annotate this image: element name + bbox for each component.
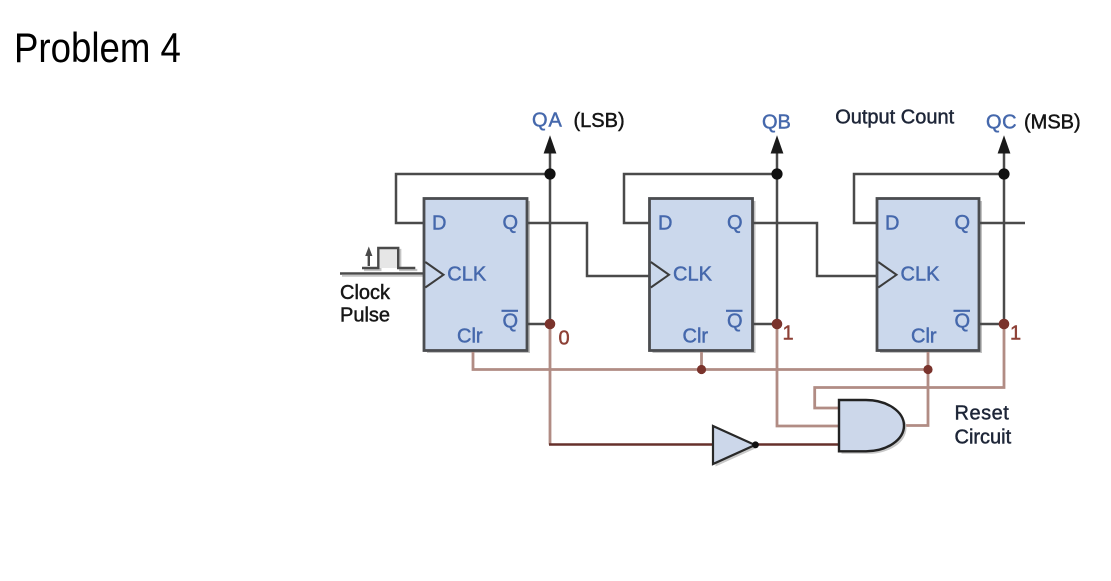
svg-text:QB: QB: [762, 112, 791, 134]
svg-text:D: D: [432, 213, 446, 235]
svg-text:(MSB): (MSB): [1024, 112, 1081, 134]
svg-text:Q: Q: [727, 212, 743, 234]
svg-text:Q: Q: [955, 311, 971, 333]
svg-text:(LSB): (LSB): [574, 110, 625, 132]
svg-text:0: 0: [559, 328, 570, 350]
svg-text:1: 1: [1010, 323, 1021, 345]
svg-text:CLK: CLK: [447, 264, 487, 286]
svg-text:QC: QC: [986, 112, 1017, 134]
svg-text:CLK: CLK: [901, 264, 941, 286]
svg-text:Reset: Reset: [955, 403, 1010, 425]
svg-text:1: 1: [783, 323, 794, 345]
svg-text:Q: Q: [955, 212, 971, 234]
svg-text:Clr: Clr: [911, 326, 937, 348]
svg-text:Clock: Clock: [340, 282, 391, 304]
svg-text:CLK: CLK: [673, 264, 713, 286]
svg-text:Output Count: Output Count: [835, 107, 954, 129]
svg-text:Circuit: Circuit: [955, 427, 1012, 449]
svg-text:Q: Q: [503, 311, 519, 333]
svg-text:Q: Q: [727, 311, 743, 333]
svg-text:Q: Q: [503, 212, 519, 234]
svg-text:D: D: [658, 213, 672, 235]
svg-text:Clr: Clr: [457, 326, 483, 348]
svg-text:Pulse: Pulse: [340, 304, 390, 326]
svg-text:D: D: [885, 213, 899, 235]
svg-text:Clr: Clr: [683, 326, 709, 348]
svg-text:QA: QA: [532, 110, 563, 132]
